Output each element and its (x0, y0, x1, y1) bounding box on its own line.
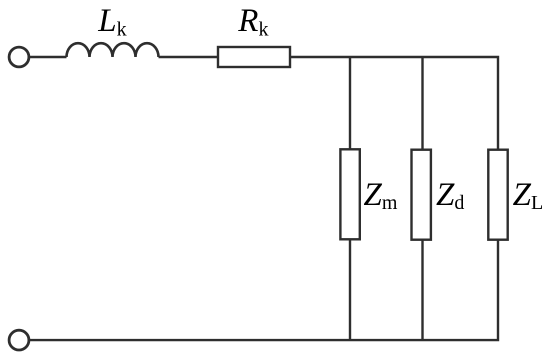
wire (branch 2 bottom) (421, 240, 423, 340)
impedance Zm (340, 149, 359, 239)
wire (29, 56, 67, 58)
wire (159, 56, 219, 58)
terminal T2 (bottom-left) (9, 330, 29, 350)
svg-text:Rk: Rk (237, 3, 268, 40)
svg-text:ZL: ZL (513, 177, 544, 214)
terminal T1 (top-left input) (9, 47, 29, 67)
wire (branch 2 top) (421, 57, 423, 150)
svg-text:Zm: Zm (364, 177, 398, 214)
inductor Lk (67, 43, 159, 57)
resistor Rk (218, 47, 290, 67)
impedance ZL (488, 150, 507, 240)
wire (top bus and right corner down to ZL) (290, 57, 498, 150)
wire (branch 3 bottom and bottom bus) (29, 240, 498, 340)
wire (branch 1 top) (349, 57, 351, 149)
svg-text:Lk: Lk (97, 3, 126, 40)
wire (branch 1 bottom) (349, 239, 351, 340)
svg-text:Zd: Zd (436, 177, 464, 214)
impedance Zd (412, 150, 431, 240)
